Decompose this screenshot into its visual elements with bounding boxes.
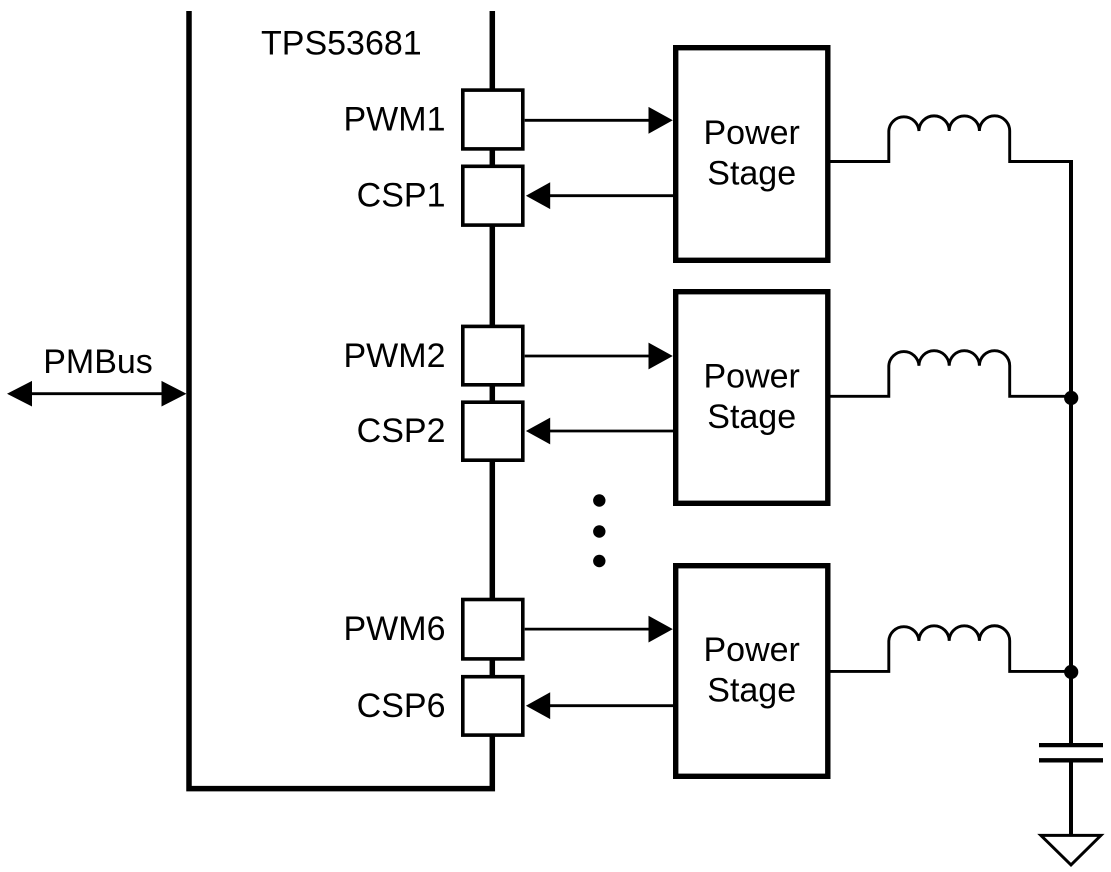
inductor L3 with output wire [831,626,1072,672]
label TPS53681 [261,25,422,63]
svg-text:CSP6: CSP6 [357,687,446,725]
pin box CSP1 [463,166,523,225]
wire PS2 to CSP2 with arrowhead [526,418,673,445]
power stage block PS2 [676,292,828,504]
power stage block PS3 [676,566,828,777]
IC U1 TPS53681 controller outline (left/bottom/right edges) [189,11,492,789]
wire capacitor to ground [1069,762,1073,835]
junction node at L3 output [1064,665,1078,679]
svg-text:Stage: Stage [707,155,796,193]
inductor L2 with output wire [831,351,1072,397]
wire PWM1 to PS1 with arrowhead [525,107,673,134]
svg-text:Power: Power [704,114,800,152]
wire VOUT bus (right vertical rail) [1069,160,1073,743]
pin box CSP6 [463,677,523,735]
pin label PWM2 [344,337,446,375]
wire PWM2 to PS2 with arrowhead [525,343,673,370]
pin box PWM1 [463,90,523,149]
svg-text:PWM6: PWM6 [344,610,446,648]
wire PS3 to CSP6 with arrowhead [526,692,673,719]
ground symbol [1041,835,1101,865]
pin box CSP2 [463,402,523,460]
svg-text:PWM1: PWM1 [344,101,446,139]
inductor L1 with output wire [831,116,1074,162]
pin box PWM2 [463,326,523,384]
pin label PWM6 [344,610,446,648]
svg-text:CSP1: CSP1 [357,177,446,215]
power stage block PS1 [676,48,828,261]
wire PMBus double-headed arrow [7,381,187,407]
wire PS1 to CSP1 with arrowhead [526,182,673,209]
pin label CSP6 [357,687,446,725]
pin box PWM6 [463,600,523,659]
capacitor C1 output cap [1039,745,1103,760]
pin label CSP2 [357,412,446,450]
svg-text:Stage: Stage [707,672,796,710]
svg-text:Power: Power [704,357,800,395]
junction node at L2 output [1064,391,1078,405]
svg-text:Stage: Stage [707,398,796,436]
svg-text:PMBus: PMBus [43,343,153,381]
svg-text:PWM2: PWM2 [344,337,446,375]
svg-text:TPS53681: TPS53681 [261,25,422,63]
pin label CSP1 [357,177,446,215]
ellipsis dots (channels 3..5) [593,494,605,567]
label PMBus [43,343,153,381]
pin label PWM1 [344,101,446,139]
svg-text:CSP2: CSP2 [357,412,446,450]
svg-text:Power: Power [704,631,800,669]
wire PWM6 to PS3 with arrowhead [525,616,673,643]
